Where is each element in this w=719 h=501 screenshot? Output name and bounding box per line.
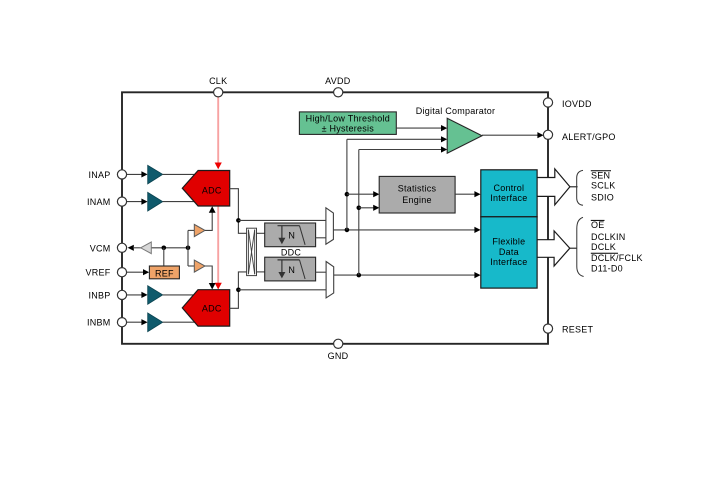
junction: VCM/REF: [162, 246, 167, 251]
wire: CLK line (pink) upper segment: [217, 97, 219, 164]
svg-text:RESET: RESET: [562, 324, 594, 334]
junction: stats tap B: [357, 206, 362, 211]
wire: crossbar to DDC N2: [257, 271, 265, 273]
wire: stats to control interface: [455, 193, 476, 195]
wire: threshold to comparator: [396, 127, 442, 129]
pin RESET: [543, 324, 552, 333]
REF block: [149, 266, 179, 279]
wire: N2 to mux2: [316, 271, 327, 273]
wire: ADC A output elbow: [230, 189, 247, 234]
wire: INBM to buffer: [127, 321, 143, 323]
arrowhead INAM: [141, 199, 147, 205]
junction: mux2 out tap: [357, 273, 362, 278]
wire: VCM rail: [151, 247, 188, 249]
DDC decimate-by-N block 2: [265, 257, 316, 281]
gain amp 2 (orange): [194, 260, 205, 272]
wire: stub to gain amp 2: [188, 265, 194, 267]
pin VCM: [117, 243, 126, 252]
arrowhead stats in B: [373, 205, 379, 211]
svg-text:N: N: [288, 265, 295, 275]
svg-text:IOVDD: IOVDD: [562, 99, 592, 109]
brace: data signals: [577, 217, 584, 276]
arrowhead comp in 2: [441, 136, 447, 142]
svg-text:INAM: INAM: [87, 197, 111, 207]
digital comparator U3: [447, 118, 482, 153]
pin labels: SEN SCLK SDIO: [591, 170, 616, 202]
arrowhead comp in 3: [441, 146, 447, 152]
svg-text:Engine: Engine: [402, 195, 432, 205]
wire: comparator input 2: [347, 138, 443, 140]
wire: vertical bus B to comparator/stats: [358, 150, 360, 276]
arrowhead down into ADC B: [209, 283, 216, 290]
arrowhead into FDI (ch B): [474, 272, 480, 278]
svg-text:N: N: [288, 231, 295, 241]
wire: vertical to gain amps: [187, 230, 189, 266]
wire: INAP buffer to ADC A: [163, 173, 200, 175]
wire: INAP to buffer: [127, 173, 143, 175]
svg-text:DCLKIN: DCLKIN: [591, 232, 626, 242]
arrowhead into control interface: [474, 191, 480, 197]
wire: gain amp 2 to ADC B top: [205, 266, 212, 285]
svg-text:High/Low Threshold: High/Low Threshold: [306, 114, 390, 124]
svg-text:Control: Control: [494, 183, 525, 193]
svg-text:ALERT/GPO: ALERT/GPO: [562, 132, 616, 142]
svg-text:INBM: INBM: [87, 318, 111, 328]
svg-text:± Hysteresis: ± Hysteresis: [322, 124, 375, 134]
buffer amp INAM: [148, 192, 163, 211]
svg-text:Statistics: Statistics: [398, 184, 437, 194]
wire: stats input A: [347, 193, 375, 195]
pin labels: OE DCLKIN DCLK DCLK/FCLK D11-D0: [591, 220, 643, 274]
svg-text:Interface: Interface: [490, 193, 527, 203]
svg-text:DDC: DDC: [281, 247, 301, 257]
arrowhead stats in A: [373, 191, 379, 197]
wire: ADC B output elbow: [230, 272, 247, 308]
svg-text:ADC: ADC: [202, 186, 222, 196]
crossbar switch: [247, 228, 257, 275]
wire: stats input B: [359, 207, 375, 209]
junction: mux1 out tap: [345, 228, 350, 233]
wire: INAM buffer to ADC A: [163, 201, 200, 203]
wire: N1 to mux1: [316, 237, 326, 239]
svg-text:CLK: CLK: [209, 76, 227, 86]
svg-text:Data: Data: [499, 247, 519, 257]
svg-text:DCLK/FCLK: DCLK/FCLK: [591, 253, 643, 263]
pin INAM: [117, 197, 126, 206]
svg-text:SDIO: SDIO: [591, 193, 614, 203]
wire: comparator to ALERT/GPO: [482, 134, 540, 136]
pin IOVDD: [543, 98, 552, 107]
svg-text:INAP: INAP: [88, 170, 110, 180]
junction: stats tap A: [345, 192, 350, 197]
ADC U1 (channel A): [182, 171, 229, 207]
svg-text:D11-D0: D11-D0: [591, 264, 623, 274]
pin INAP: [117, 170, 126, 179]
buffer amp INAP: [148, 165, 163, 184]
DDC decimate-by-N block 1: [265, 223, 316, 247]
vcm buffer (gray, points left): [141, 242, 152, 254]
wire: vertical bus A to comparator/stats: [346, 139, 348, 230]
pin VREF: [117, 268, 126, 277]
arrowhead up into ADC A: [209, 206, 216, 213]
svg-text:Flexible: Flexible: [492, 237, 525, 247]
wire: mux2 output to Flexible Data Interface: [334, 274, 476, 276]
arrowhead VREF into REF: [143, 269, 149, 275]
pin CLK: [214, 88, 223, 97]
statistics engine: [379, 176, 455, 213]
svg-text:ADC: ADC: [202, 303, 222, 313]
svg-text:VCM: VCM: [90, 243, 111, 253]
arrowhead into ALERT/GPO: [537, 132, 543, 138]
control interface block: [481, 170, 537, 217]
pin AVDD: [334, 88, 343, 97]
arrowhead: CLK into ADC A: [215, 163, 222, 170]
arrowhead INBM: [141, 319, 147, 325]
wire: mux1 output to Flexible Data Interface: [333, 229, 476, 231]
svg-text:SEN: SEN: [591, 170, 610, 180]
brace: serial signals: [577, 170, 583, 205]
bus arrow: data interface: [537, 231, 577, 266]
junction: ADC B bypass tap: [236, 288, 241, 293]
wire: VREF to REF box: [127, 271, 145, 273]
arrowhead INAP: [141, 171, 147, 177]
wire: CLK line (pink) lower segment: [217, 206, 219, 285]
wire: gray buffer tip to VCM arrow: [133, 247, 141, 249]
svg-text:REF: REF: [155, 268, 174, 278]
arrowhead INBP: [141, 292, 147, 298]
threshold block: [299, 112, 396, 134]
pin INBM: [117, 318, 126, 327]
svg-text:INBP: INBP: [88, 290, 110, 300]
pin GND: [334, 339, 343, 348]
pin ALERT/GPO: [543, 130, 552, 139]
buffer amp INBM: [148, 313, 163, 332]
svg-text:OE: OE: [591, 220, 605, 230]
wire: down to REF: [163, 248, 165, 266]
wire: INBP buffer to ADC B: [163, 294, 200, 296]
ADC U2 (channel B): [182, 290, 229, 326]
arrowhead: CLK into ADC B: [215, 283, 222, 290]
arrowhead comp in 1: [441, 125, 447, 131]
arrowhead into FDI (ch A): [474, 227, 480, 233]
arrowhead into VCM pin: [128, 245, 134, 251]
svg-text:Interface: Interface: [490, 257, 527, 267]
svg-text:AVDD: AVDD: [325, 76, 351, 86]
mux 1: [326, 208, 334, 244]
pin INBP: [117, 290, 126, 299]
junction: VCM rail to gain amps: [186, 246, 191, 251]
svg-text:VREF: VREF: [85, 268, 110, 278]
svg-text:GND: GND: [328, 351, 349, 361]
svg-text:Digital Comparator: Digital Comparator: [416, 106, 496, 116]
chip boundary: [122, 92, 548, 343]
flexible data interface block: [481, 217, 537, 288]
bus arrow: serial interface: [537, 169, 578, 205]
wire: INBM buffer to ADC B: [163, 321, 200, 323]
gain amp 1 (orange): [194, 224, 205, 236]
junction: ADC A bypass tap: [236, 218, 241, 223]
wire: INAM to buffer: [127, 201, 143, 203]
mux 2: [326, 262, 334, 298]
wire: comparator input 3: [359, 149, 443, 151]
svg-text:SCLK: SCLK: [591, 181, 616, 191]
wire: stub to gain amp 1: [188, 229, 194, 231]
wire: crossbar to DDC N1: [257, 232, 265, 234]
wire: ADC A bypass to mux1: [238, 219, 326, 221]
wire: gain amp 1 to ADC A bottom: [205, 211, 212, 231]
wire: ADC B bypass to mux2: [238, 289, 326, 291]
wire: INBP to buffer: [127, 294, 143, 296]
svg-text:DCLK: DCLK: [591, 242, 616, 252]
buffer amp INBP: [148, 286, 163, 305]
